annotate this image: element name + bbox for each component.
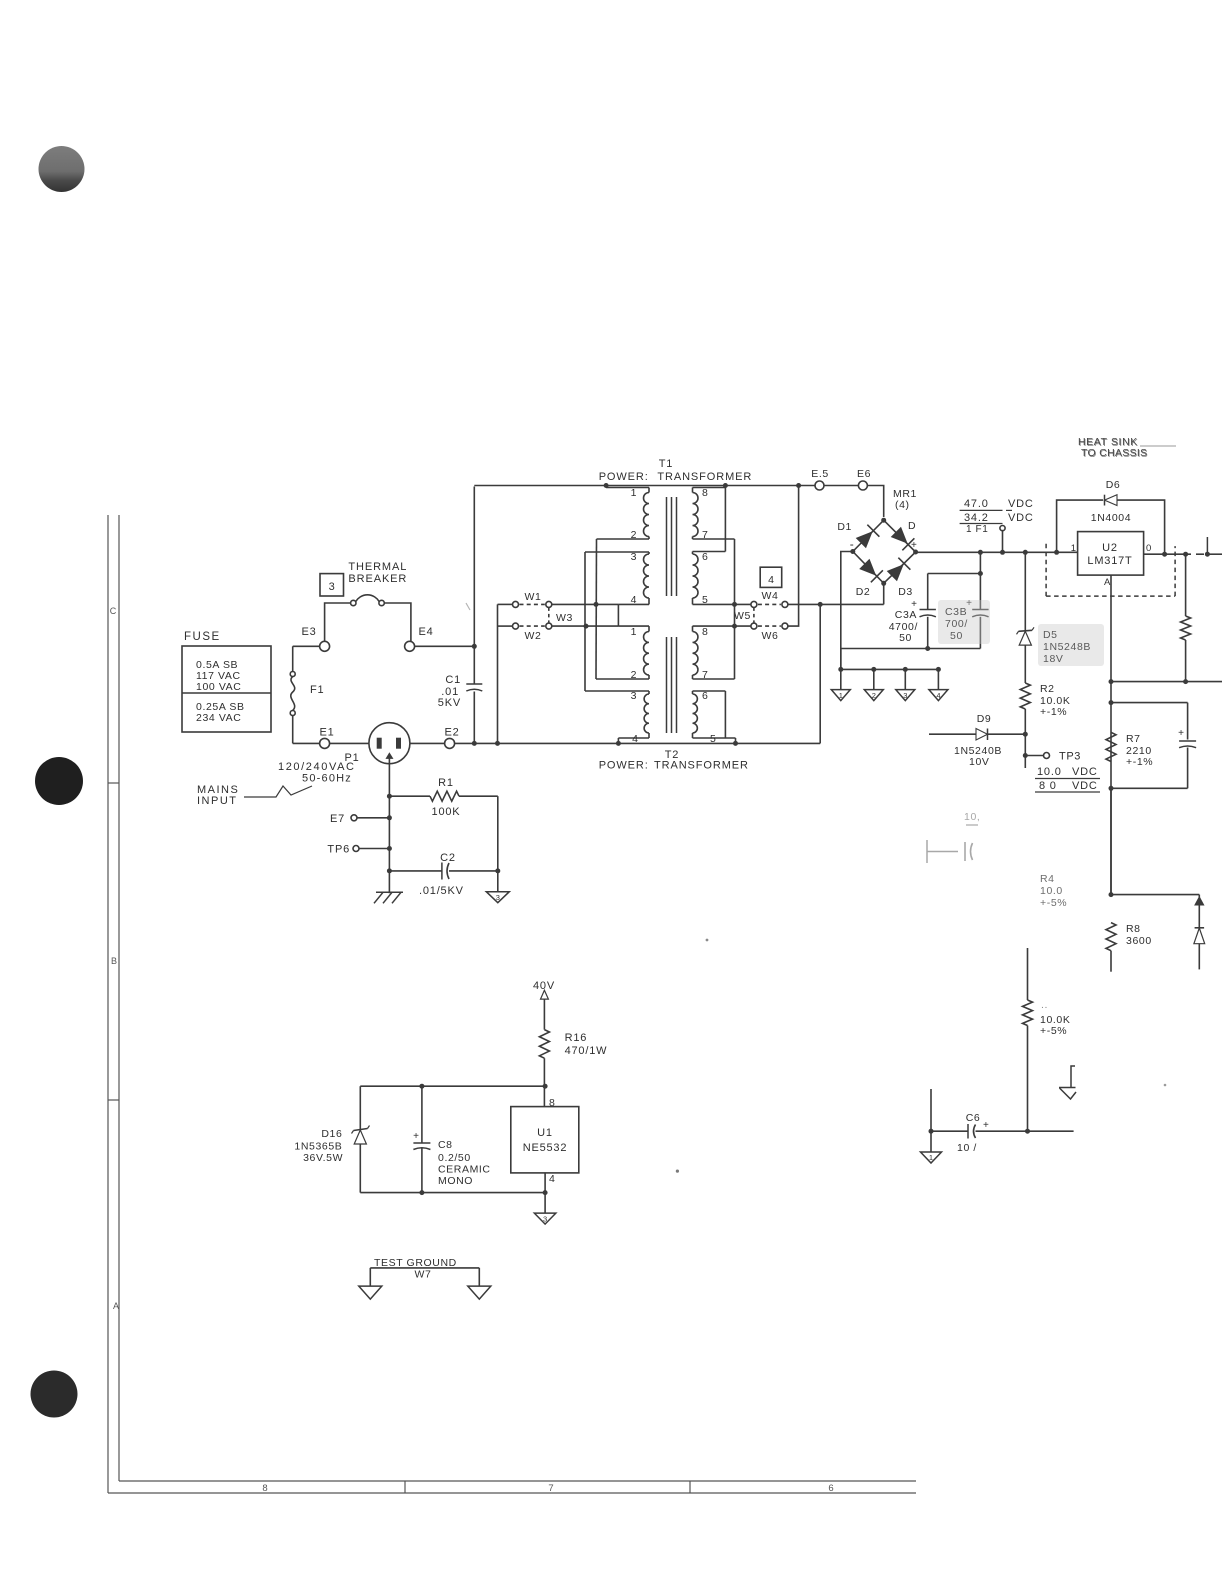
junction W-column on bottom bus — [495, 741, 500, 746]
wire E1 to P1 — [330, 742, 369, 744]
wire U2 output — [1144, 553, 1191, 555]
svg-text:D6: D6 — [1106, 479, 1121, 491]
R7 block bottom rail — [1111, 787, 1188, 789]
off page connector tick — [1206, 537, 1208, 555]
svg-text:..: .. — [1041, 999, 1048, 1011]
wire E2 to transformer bottom bus — [455, 742, 821, 744]
svg-text:R2: R2 — [1040, 683, 1055, 695]
zener diode D16 — [359, 1086, 361, 1129]
svg-text:W6: W6 — [762, 630, 779, 642]
capacitor beside R7 — [1179, 740, 1196, 742]
ground stub 2 — [873, 669, 875, 689]
ground triangle C6 — [921, 1152, 942, 1163]
zener diode D5 — [1024, 552, 1026, 631]
jumper W4 — [751, 601, 757, 607]
svg-text:E6: E6 — [857, 468, 871, 480]
svg-text:5: 5 — [702, 594, 708, 606]
svg-text:D2: D2 — [856, 586, 871, 598]
jumper W1 — [498, 603, 513, 605]
ground triangle 2 — [864, 690, 883, 701]
wire W4 to AC node — [788, 603, 884, 605]
junction C1 column on bottom bus — [472, 741, 477, 746]
junction D5 on DC bus — [1023, 550, 1028, 555]
T1 core — [666, 497, 668, 596]
svg-text:7: 7 — [702, 669, 708, 681]
bridge diode D1 — [857, 532, 872, 547]
T2 primary winding 3-4 — [585, 690, 649, 692]
svg-text:TP6: TP6 — [327, 844, 350, 856]
diode branch right of R8 — [1195, 897, 1204, 905]
svg-text:(4): (4) — [895, 499, 910, 511]
svg-text:R1: R1 — [438, 777, 454, 789]
svg-text:3: 3 — [496, 893, 500, 902]
border bottom inner line — [119, 1480, 916, 1482]
svg-text:POWER:: POWER: — [599, 471, 649, 483]
wire R2 to TP3 node — [1024, 734, 1026, 768]
op-amp U1 box — [511, 1107, 579, 1173]
svg-text:E3: E3 — [301, 626, 316, 638]
svg-text:E7: E7 — [330, 813, 345, 825]
border zone tick C/B — [108, 782, 119, 784]
svg-text:C3A: C3A — [895, 609, 917, 621]
svg-text:W2: W2 — [525, 630, 542, 642]
svg-text:18V: 18V — [1043, 653, 1063, 665]
svg-text:F1: F1 — [310, 684, 324, 696]
jumper W2 — [498, 625, 513, 627]
capacitor C4 faded — [926, 840, 928, 863]
ground triangle 1 — [831, 690, 850, 701]
svg-text:8: 8 — [262, 1483, 267, 1494]
wire T1 pin3 to T2 pin3 — [584, 552, 586, 691]
svg-text:A: A — [1104, 577, 1111, 588]
ground stub below U1 — [544, 1193, 546, 1214]
bridge diode D4 — [892, 528, 907, 543]
svg-text:1N5248B: 1N5248B — [1043, 641, 1091, 653]
wire top bus — [474, 485, 815, 487]
wire U1 bottom — [544, 1173, 546, 1193]
ground triangle 4 — [929, 690, 948, 701]
svg-text:0.2/50: 0.2/50 — [438, 1152, 471, 1164]
capacitor C2 — [387, 868, 392, 873]
svg-text:W5: W5 — [734, 610, 751, 622]
svg-text:T1: T1 — [659, 458, 673, 470]
svg-text:A: A — [113, 1301, 119, 1311]
wire mains riser — [819, 604, 821, 743]
svg-text:POWER:: POWER: — [599, 760, 649, 772]
svg-text:C6: C6 — [966, 1112, 981, 1124]
resistor R7 — [1106, 732, 1116, 761]
svg-text:2: 2 — [872, 691, 876, 700]
junction E-row / W6 riser — [796, 483, 801, 488]
capacitor C8 — [421, 1086, 423, 1142]
diode D9 — [929, 733, 976, 735]
junction T1 pin5 row — [732, 602, 737, 607]
junction W1 wire — [594, 602, 599, 607]
T2 secondary winding 6-5 — [693, 690, 726, 692]
svg-text:+: + — [911, 540, 917, 551]
capacitor C3B — [979, 574, 981, 610]
heat sink dashed outline — [1045, 544, 1047, 596]
svg-text:1N5365B: 1N5365B — [294, 1141, 342, 1153]
wire bridge bottom to AC row — [883, 583, 885, 604]
svg-text:1: 1 — [1071, 543, 1076, 554]
wire R8 row — [1111, 894, 1199, 896]
svg-text:TP3: TP3 — [1059, 751, 1081, 763]
punch hole top — [39, 146, 85, 192]
svg-text:R7: R7 — [1126, 733, 1141, 745]
ground stub below C6 — [930, 1131, 932, 1152]
wire cap bank top rail — [928, 573, 981, 575]
wire E5 to E6 — [824, 485, 858, 487]
R7 parallel block top rail — [1111, 702, 1188, 704]
svg-text:1: 1 — [839, 691, 843, 700]
svg-text:TRANSFORMER: TRANSFORMER — [654, 760, 749, 772]
border zone tick B/A — [108, 1099, 119, 1101]
thermal breaker contacts and arc — [351, 600, 356, 605]
chassis ground below P1 — [376, 891, 403, 893]
border bottom outer line — [108, 1492, 916, 1494]
wire top bus stub to T1 pin1 — [605, 486, 607, 488]
wire P1 to E2 — [410, 742, 445, 744]
svg-text:C8: C8 — [438, 1139, 453, 1151]
wire E6 to bridge top — [867, 486, 883, 518]
svg-text:10 /: 10 / — [957, 1142, 977, 1154]
svg-text:BREAKER: BREAKER — [348, 573, 407, 585]
svg-text:TO CHASSIS: TO CHASSIS — [1081, 447, 1147, 459]
svg-text:3: 3 — [631, 690, 637, 702]
wire R16 to U1 rail — [543, 1058, 545, 1106]
terminal E2 — [445, 738, 455, 748]
wire T2 pin4 to bottom bus — [617, 738, 619, 743]
svg-text:7: 7 — [702, 529, 708, 541]
wire U1 top rail — [360, 1085, 545, 1087]
svg-text:2: 2 — [631, 669, 637, 681]
label C3B smudged — [938, 600, 990, 644]
svg-text:C2: C2 — [440, 852, 456, 864]
svg-text:10,: 10, — [964, 811, 980, 823]
T1 secondary winding 6-5 — [693, 551, 726, 553]
svg-text:+: + — [1178, 728, 1184, 739]
svg-text:D: D — [908, 520, 916, 532]
test ground bracket W7 — [370, 1267, 479, 1269]
mains plug P1 — [369, 723, 410, 764]
svg-text:U2: U2 — [1102, 542, 1118, 554]
wire down to R8 row — [1110, 788, 1112, 894]
ground stub 1 — [840, 669, 842, 689]
wire E4 to C1 node — [415, 645, 475, 647]
wire adjust row — [1111, 681, 1222, 683]
wire output dash-dot break — [1196, 553, 1204, 555]
svg-text:6: 6 — [828, 1483, 833, 1494]
svg-text:+-5%: +-5% — [1040, 897, 1067, 909]
svg-text:1N4004: 1N4004 — [1091, 512, 1131, 524]
punch hole bottom — [31, 1371, 78, 1418]
svg-text:100 VAC: 100 VAC — [196, 681, 241, 693]
terminal E4 — [405, 641, 415, 651]
wire F1 top to E3 — [293, 645, 320, 647]
svg-text:R16: R16 — [565, 1032, 588, 1044]
svg-text:VDC: VDC — [1072, 766, 1098, 778]
svg-text:4: 4 — [768, 574, 774, 586]
wire U2 adjust down — [1110, 575, 1112, 895]
T1 primary winding 3-4 — [585, 551, 649, 553]
fuse table box — [182, 646, 271, 732]
svg-text:34.2: 34.2 — [964, 512, 989, 524]
wire E3 up to breaker — [325, 603, 351, 641]
svg-text:8: 8 — [702, 487, 708, 499]
svg-text:8: 8 — [702, 626, 708, 638]
wire R1 right leg — [497, 796, 499, 892]
svg-text:D1: D1 — [837, 521, 852, 533]
svg-text:36V.5W: 36V.5W — [303, 1152, 343, 1164]
ground triangle U1 — [534, 1213, 556, 1224]
svg-text:50: 50 — [899, 632, 912, 644]
svg-text:1: 1 — [631, 626, 637, 638]
svg-text:3: 3 — [631, 551, 637, 563]
svg-text:50: 50 — [950, 630, 963, 642]
border zone tick 8/7 — [404, 1481, 406, 1493]
ground triangle 3 — [896, 690, 915, 701]
svg-text:VDC: VDC — [1008, 498, 1034, 510]
svg-text:.01/5KV: .01/5KV — [419, 885, 464, 897]
test point TP3 — [1025, 755, 1043, 757]
T2 secondary winding 8-7 — [693, 625, 752, 627]
wire W6 riser to top bus — [788, 486, 799, 627]
ground stub 3 — [904, 669, 906, 689]
T1 secondary winding 8-7 — [693, 487, 726, 489]
svg-text:3: 3 — [329, 581, 335, 593]
T2 primary winding 1-2 — [618, 625, 649, 627]
resistor R1 — [389, 795, 430, 797]
resistor R5 — [1027, 948, 1029, 1000]
ground bus below bridge — [840, 649, 842, 670]
capacitor C6 — [930, 1089, 932, 1131]
svg-text:W7: W7 — [415, 1269, 432, 1281]
svg-text:4: 4 — [936, 691, 940, 700]
resistor R16 — [539, 1030, 549, 1059]
wire U1 bottom rail — [360, 1192, 545, 1194]
svg-text:6: 6 — [702, 690, 708, 702]
T2 core — [666, 637, 668, 733]
resistor R2 — [1020, 683, 1030, 709]
svg-text:THERMAL: THERMAL — [348, 561, 407, 573]
wire T1 pin7 to T2 pin7 vertical — [734, 539, 736, 679]
bridge diode D2 — [860, 560, 875, 575]
svg-text:W4: W4 — [762, 590, 779, 602]
wire W2 to transformer — [552, 625, 619, 627]
svg-text:3: 3 — [903, 691, 907, 700]
svg-text:E2: E2 — [444, 727, 459, 739]
svg-text:47.0: 47.0 — [964, 498, 989, 510]
bridge diamond — [853, 520, 916, 583]
terminal E3 — [320, 641, 330, 651]
svg-text:234 VAC: 234 VAC — [196, 712, 241, 724]
svg-text:1: 1 — [929, 1153, 933, 1162]
svg-text:D5: D5 — [1043, 629, 1058, 641]
svg-text:D3: D3 — [898, 586, 913, 598]
svg-text:+: + — [413, 1131, 419, 1142]
svg-text:VDC: VDC — [1072, 780, 1098, 792]
svg-text:5: 5 — [710, 733, 716, 745]
ground triangle W7 left — [359, 1286, 382, 1299]
jumper W6 — [751, 623, 757, 629]
svg-text:E4: E4 — [418, 626, 433, 638]
border left inner line — [107, 515, 109, 1493]
svg-text:LM317T: LM317T — [1087, 555, 1132, 567]
wire T1 pin2 to T2 pin2 — [595, 539, 598, 679]
svg-text:6: 6 — [702, 551, 708, 563]
punch hole middle — [35, 757, 83, 805]
svg-text:R8: R8 — [1126, 923, 1141, 935]
svg-text:0: 0 — [1146, 543, 1151, 554]
svg-text:VDC: VDC — [1008, 512, 1034, 524]
terminal E1 — [320, 738, 330, 748]
wire 40V to R16 — [543, 999, 545, 1030]
regulator U2 box — [1078, 532, 1144, 576]
svg-text:700/: 700/ — [945, 618, 968, 630]
bridge diode D3 — [888, 565, 903, 580]
resistor R8 — [1106, 923, 1116, 951]
callout box 4 — [760, 567, 782, 587]
svg-text:R4: R4 — [1040, 873, 1055, 885]
scan speck — [706, 939, 709, 942]
chassis return hook symbol — [1071, 1066, 1075, 1088]
wire bridge right to DC plus bus — [916, 551, 1078, 553]
svg-text:U1: U1 — [537, 1127, 553, 1139]
svg-text:+-1%: +-1% — [1126, 756, 1153, 768]
svg-text:B: B — [111, 956, 117, 966]
junction W2 wire — [584, 624, 589, 629]
svg-text:7: 7 — [548, 1483, 553, 1494]
svg-text:1 F1: 1 F1 — [966, 524, 988, 535]
svg-text:10.0: 10.0 — [1040, 885, 1063, 897]
svg-text:120/240VAC: 120/240VAC — [278, 761, 356, 773]
jumper W3 — [548, 607, 550, 623]
callout box 3 (thermal breaker) — [320, 574, 344, 596]
label D5 1N5248B 18V smudged — [1038, 624, 1104, 666]
svg-text:1: 1 — [631, 487, 637, 499]
wire T2 pin6 down — [724, 691, 726, 738]
svg-text:4: 4 — [631, 594, 637, 606]
leader line mains input — [244, 786, 312, 797]
svg-text:INPUT: INPUT — [197, 795, 238, 807]
svg-text:50-60Hz: 50-60Hz — [302, 773, 352, 785]
fuse F1 — [292, 646, 294, 671]
junction at C1/E4 wire — [472, 644, 477, 649]
terminal E5 — [815, 481, 824, 490]
svg-text:10V: 10V — [969, 756, 989, 768]
svg-text:E.5: E.5 — [811, 468, 829, 480]
ground triangle W7 right — [468, 1286, 491, 1299]
svg-text:D9: D9 — [977, 713, 992, 725]
border left outer line — [118, 515, 120, 1481]
capacitor C3A — [927, 574, 929, 610]
wire W column vertical — [497, 604, 499, 743]
jumper W5 — [753, 607, 755, 623]
svg-text:NE5532: NE5532 — [523, 1142, 568, 1154]
ground triangle R1/C2 — [486, 892, 509, 903]
svg-text:MONO: MONO — [438, 1175, 473, 1187]
T1 primary winding 1-2 — [606, 487, 649, 489]
svg-text:C3B: C3B — [945, 606, 967, 618]
wire cap bank bottom rail — [841, 648, 981, 650]
svg-text:8 0: 8 0 — [1039, 780, 1057, 792]
ground stub 4 — [937, 669, 939, 689]
wire bridge left to DC minus — [841, 552, 853, 670]
wire T2 pin5 to bottom bus — [735, 738, 737, 743]
wire P1 neutral down — [388, 758, 390, 893]
diode D6 1N4004 — [1057, 500, 1103, 552]
border zone tick 7/6 — [689, 1481, 691, 1493]
svg-text:+-5%: +-5% — [1040, 1025, 1067, 1037]
wire T1 pin4 to T2 pin1 — [617, 604, 619, 626]
svg-text:470/1W: 470/1W — [565, 1045, 608, 1057]
svg-text:-: - — [850, 537, 854, 551]
svg-text:CERAMIC: CERAMIC — [438, 1164, 491, 1176]
svg-text:4: 4 — [549, 1173, 555, 1185]
svg-text:10.0: 10.0 — [1037, 766, 1062, 778]
junction mains riser on W4 row — [818, 602, 823, 607]
svg-text:3: 3 — [543, 1214, 547, 1223]
svg-text:4: 4 — [632, 733, 638, 745]
svg-text:+-1%: +-1% — [1040, 706, 1067, 718]
svg-text:W1: W1 — [525, 591, 542, 603]
svg-text:D16: D16 — [321, 1128, 342, 1140]
svg-text:2: 2 — [631, 529, 637, 541]
svg-text:C: C — [110, 606, 117, 616]
svg-text:C1: C1 — [445, 674, 461, 686]
terminal E6 — [858, 481, 867, 490]
wire W1 to transformer — [552, 603, 619, 605]
svg-text:5KV: 5KV — [438, 697, 461, 709]
resistor above R7 (right column) — [1185, 554, 1187, 616]
capacitor C1 — [473, 487, 475, 684]
svg-text:+: + — [983, 1120, 989, 1131]
wire T1 pin8/pin6 tie to top bus — [724, 486, 726, 552]
supply arrow 40V — [541, 990, 549, 999]
svg-text:3600: 3600 — [1126, 935, 1152, 947]
svg-text:W3: W3 — [556, 612, 573, 624]
svg-text:E1: E1 — [319, 727, 334, 739]
svg-text:FUSE: FUSE — [184, 631, 221, 643]
svg-text:100K: 100K — [432, 806, 461, 818]
fuse table divider — [182, 692, 271, 694]
wire breaker to E4 — [384, 603, 411, 641]
svg-text:TRANSFORMER: TRANSFORMER — [657, 471, 752, 483]
junction W6 row — [732, 624, 737, 629]
